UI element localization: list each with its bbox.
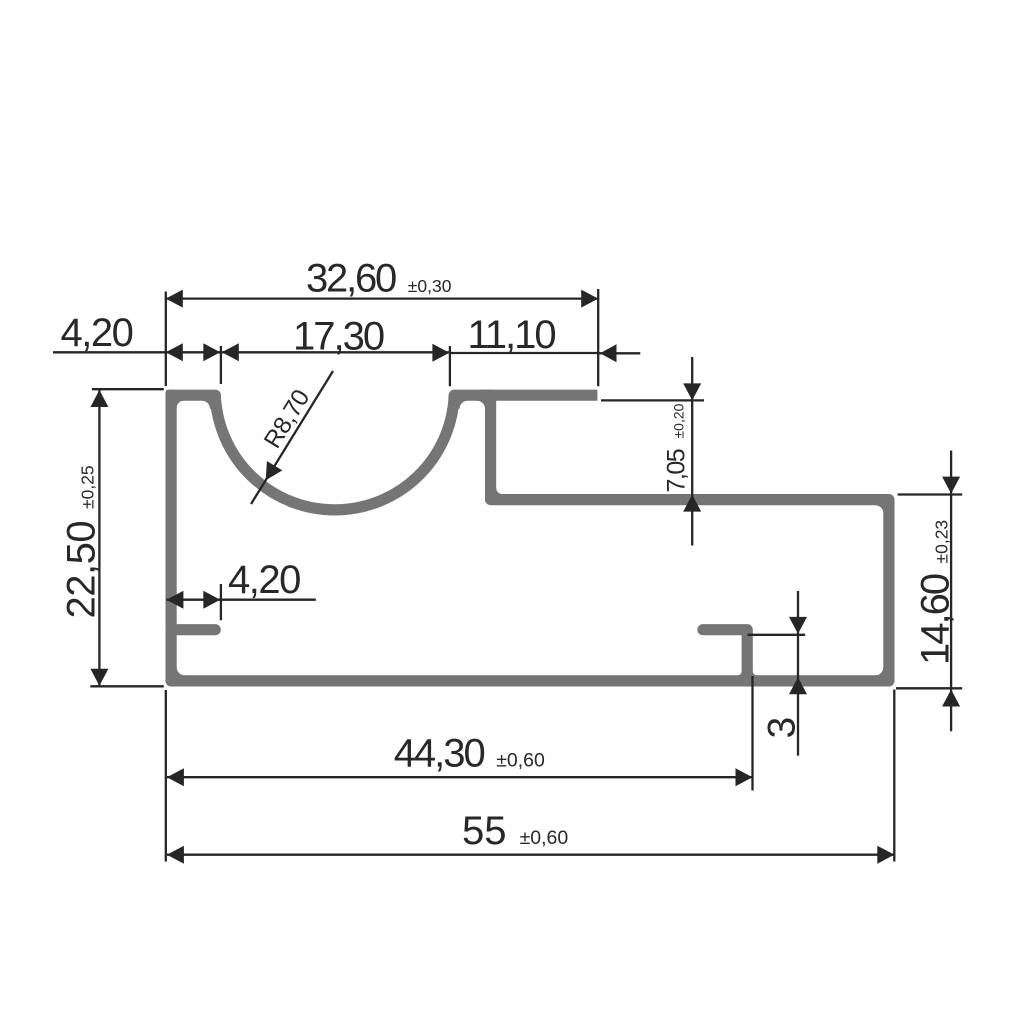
svg-text:55: 55: [462, 809, 507, 853]
svg-text:11,10: 11,10: [468, 313, 556, 357]
svg-text:4,20: 4,20: [61, 311, 133, 355]
svg-text:3: 3: [761, 717, 804, 739]
svg-text:±0,23: ±0,23: [932, 520, 952, 564]
svg-text:4,20: 4,20: [228, 558, 300, 602]
svg-text:22,50: 22,50: [60, 521, 104, 619]
svg-text:7,05: 7,05: [663, 449, 691, 492]
svg-text:±0,60: ±0,60: [496, 750, 545, 772]
svg-text:±0,25: ±0,25: [78, 465, 98, 509]
svg-text:32,60: 32,60: [306, 257, 396, 301]
svg-text:44,30: 44,30: [394, 732, 485, 776]
svg-text:14,60: 14,60: [914, 574, 958, 665]
svg-text:17,30: 17,30: [293, 315, 384, 359]
svg-text:±0,20: ±0,20: [671, 403, 687, 438]
svg-text:±0,60: ±0,60: [520, 827, 569, 849]
svg-text:±0,30: ±0,30: [408, 276, 452, 296]
